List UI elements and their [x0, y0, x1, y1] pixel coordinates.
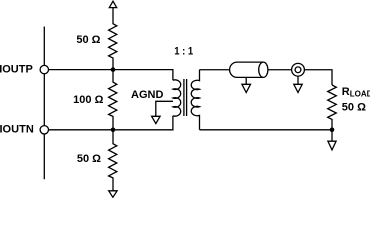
wire AGND center tap — [156, 101, 173, 116]
ground arrow AGND — [152, 116, 161, 123]
wire secondary bottom to RLOAD — [200, 129, 333, 131]
cylinder right end ellipse — [259, 62, 268, 77]
junction dot RLOAD ground — [330, 128, 335, 133]
junction dot IOUTP / resistor rail — [111, 67, 116, 72]
wire IOUTP horizontal to transformer primary top — [49, 70, 173, 81]
wire secondary top to cylinder — [200, 69, 230, 71]
svg-text:50 Ω: 50 Ω — [77, 153, 101, 165]
ground stub under connector — [297, 76, 299, 84]
ground arrow below bottom 50 ohm — [109, 191, 117, 198]
terminal circle IOUTN — [40, 126, 48, 134]
wire connector to RLOAD top — [304, 70, 332, 85]
svg-text:IOUTP: IOUTP — [0, 63, 33, 75]
transformer T1 secondary winding — [191, 70, 199, 130]
ground arrow under connector — [294, 84, 302, 92]
ground arrow under RLOAD — [328, 141, 336, 150]
resistor 100 ohm — [109, 70, 117, 130]
wire left vertical bus — [43, 27, 45, 180]
svg-text:100 Ω: 100 Ω — [73, 94, 103, 106]
resistor bottom 50 ohm — [109, 130, 117, 191]
resistor RLOAD 50 ohm — [328, 85, 337, 130]
svg-text:AGND: AGND — [131, 89, 163, 101]
wire cylinder to connector — [268, 69, 292, 71]
junction dot IOUTN / resistor rail — [111, 128, 116, 133]
connector J1 inner circle — [295, 67, 301, 73]
transformer T1 primary winding — [173, 80, 181, 116]
transformer core lines — [183, 79, 185, 116]
connector J1 outer circle — [292, 63, 305, 76]
svg-text:1 : 1: 1 : 1 — [174, 46, 193, 58]
cylinder (coax/filter) body — [230, 62, 264, 77]
resistor R top 50 ohm — [109, 8, 117, 70]
supply arrow up (top of 50 ohm resistor) — [109, 1, 116, 7]
ground stub under cylinder — [245, 77, 247, 84]
wire IOUTN horizontal to transformer primary bottom — [49, 116, 173, 130]
svg-text:50 Ω: 50 Ω — [342, 101, 366, 113]
ground stub under RLOAD — [331, 130, 333, 141]
terminal circle IOUTP — [40, 65, 48, 73]
ground arrow under cylinder — [242, 84, 251, 92]
svg-text:50 Ω: 50 Ω — [76, 34, 100, 46]
svg-text:IOUTN: IOUTN — [0, 123, 34, 135]
